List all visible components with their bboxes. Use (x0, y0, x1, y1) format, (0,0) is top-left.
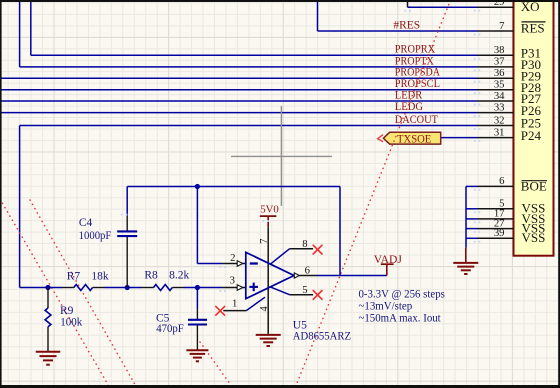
svg-text:8: 8 (302, 238, 307, 250)
node D junction (feedback/inverting branch) (195, 184, 200, 189)
wire PROPRX vertical (30, 0, 32, 55)
op-amp pin 5 stub (290, 294, 314, 296)
svg-text:6: 6 (305, 264, 311, 276)
op-amp U5 pin 3 line (223, 287, 246, 289)
wire VSS stub 4 (466, 237, 478, 239)
svg-text:6: 6 (499, 175, 505, 187)
hotspot marker pin 31 (474, 140, 476, 142)
hotspot marker pin 29 (474, 10, 476, 12)
hotspot marker pin3 end (219, 290, 221, 292)
red dashed diagonal bottom center (200, 342, 233, 388)
wire #RES horizontal (318, 30, 478, 32)
hotspot marker pin 34 (474, 104, 476, 106)
resistor R8 lead left (142, 287, 154, 289)
no-connect X pin 5 (313, 291, 322, 300)
hotspot marker pin 39 (474, 241, 476, 243)
svg-text:100k: 100k (60, 317, 82, 329)
port TXSOE (383, 132, 440, 144)
wire XO vertical stub (407, 0, 409, 7)
svg-text:DACOUT: DACOUT (395, 113, 438, 126)
pin 3 input glyph (237, 285, 243, 291)
svg-text:0-3.3V @ 256 steps: 0-3.3V @ 256 steps (359, 288, 445, 300)
IC pin 39 (VSS4) (478, 237, 514, 239)
svg-text:~13mV/step: ~13mV/step (359, 301, 413, 313)
svg-text:470pF: 470pF (156, 323, 184, 335)
IC pin 29 (XO) (478, 6, 514, 8)
svg-text:TXSOE: TXSOE (397, 131, 431, 145)
ground under C5 (186, 349, 208, 351)
IC pin 33 (P26) (478, 112, 514, 114)
wire VSS stub 1 (466, 208, 478, 210)
IC pin 35 (P28) (478, 89, 514, 91)
hotspot marker pin 17 (474, 221, 476, 223)
wire DACOUT vertical feed (19, 126, 21, 288)
IC U1 body (514, 0, 554, 256)
wire DACOUT horizontal (20, 125, 478, 127)
wire inverting branch vertical (196, 187, 198, 264)
svg-text:RES: RES (521, 21, 545, 36)
wire PROPSDA (0, 77, 478, 79)
IC pin 5 (VSS1) (478, 208, 514, 210)
capacitor C4 lead top (126, 216, 128, 231)
resistor R9 lead bottom (47, 327, 49, 352)
red dashed diagonal left 1 (0, 199, 110, 388)
capacitor C5 lead top (196, 309, 198, 320)
IC pin 31 (P24) (478, 137, 514, 139)
svg-text:37: 37 (494, 56, 505, 68)
svg-text:1000pF: 1000pF (79, 230, 112, 242)
IC pin 36 (P29) (478, 77, 514, 79)
wire node row left (20, 287, 62, 289)
node C junction (C5 top) (195, 285, 200, 290)
wire VSS stub 3 (466, 228, 478, 230)
hotspot marker pin2 end (219, 266, 221, 268)
red dashed diagonal left 2 (30, 200, 137, 388)
svg-text:33: 33 (494, 101, 505, 113)
svg-text:P24: P24 (521, 128, 542, 143)
wire LEDR (0, 100, 478, 102)
IC pin 32 (P25) (478, 125, 514, 127)
svg-text:39: 39 (494, 227, 505, 239)
hotspot marker pin 38 (474, 58, 476, 60)
hotspot marker XO wire corner (404, 10, 406, 12)
wire BOE vertical (465, 186, 467, 247)
no-connect X pin 1 (216, 306, 225, 315)
svg-text:C4: C4 (79, 217, 93, 229)
svg-text:LEDG: LEDG (395, 100, 424, 113)
pin 2 input glyph (237, 261, 243, 267)
wire XO (pin 29) (408, 6, 478, 8)
svg-text:R9: R9 (60, 305, 74, 317)
svg-text:5: 5 (302, 284, 307, 296)
op-amp pin 8 stub (290, 248, 314, 250)
svg-text:1: 1 (232, 298, 237, 310)
svg-text:31: 31 (494, 126, 505, 138)
op-amp pin 5 diagonal (270, 287, 290, 295)
IC pin 7 (RES) (478, 30, 514, 32)
svg-text:2: 2 (230, 252, 235, 264)
svg-text:35: 35 (494, 79, 505, 91)
IC pin 34 (P27) (478, 100, 514, 102)
wire C4 top (126, 187, 128, 216)
hotspot marker pin 36 (474, 81, 476, 83)
svg-text:~150mA max. Iout: ~150mA max. Iout (359, 312, 442, 324)
hotspot marker pin 35 (474, 92, 476, 94)
svg-text:#RES: #RES (393, 19, 420, 32)
op-amp pin 7 and pin 4 vertical (267, 227, 269, 334)
ground under R9 (36, 351, 61, 353)
node B junction (C4 bottom) (125, 285, 130, 290)
wire R7 to C4 node (105, 287, 142, 289)
capacitor C5 (188, 319, 207, 321)
node A junction (45, 285, 50, 290)
marker red chevron at port tip (378, 135, 383, 142)
wire LEDG (0, 112, 478, 114)
hotspot marker C4 top (121, 214, 123, 216)
capacitor C4 (117, 230, 137, 232)
op-amp output glyph (294, 273, 299, 278)
wire TXSOE to pin 31 (441, 137, 478, 139)
IC pin 6 (BOE) (478, 185, 514, 187)
capacitor C4 lead bottom (126, 237, 128, 288)
hotspot marker pin 27 (474, 231, 476, 233)
op-amp pin 1 stub (223, 310, 246, 312)
wire BOE stub (466, 185, 478, 187)
op-amp minus sign (250, 262, 258, 264)
hotspot marker 5V0 (262, 220, 264, 222)
svg-text:3: 3 (230, 275, 235, 287)
IC pin 37 (P30) (478, 66, 514, 68)
svg-text:XO: XO (521, 0, 540, 14)
resistor R7 (74, 285, 93, 291)
wire PROPTX horizontal (20, 66, 478, 68)
wire R8 to op-amp pin3 (184, 287, 223, 289)
hotspot marker pin 6 (474, 189, 476, 191)
svg-text:7: 7 (259, 239, 270, 244)
red dashed diagonal right (295, 0, 451, 388)
cursor crosshair (231, 155, 332, 157)
svg-text:32: 32 (494, 114, 505, 126)
svg-text:AD8655ARZ: AD8655ARZ (293, 330, 351, 342)
ground under op-amp pin 4 (256, 334, 281, 336)
svg-text:4: 4 (259, 306, 270, 312)
hotspot marker pin 37 (474, 69, 476, 71)
svg-text:38: 38 (494, 44, 505, 56)
wire feedback top (127, 186, 340, 188)
IC pin 27 (VSS3) (478, 228, 514, 230)
wire PROPTX vertical (19, 0, 21, 67)
IC pin 38 (P31) (478, 54, 514, 56)
IC pin 17 (VSS2) (478, 218, 514, 220)
svg-text:36: 36 (494, 67, 505, 79)
op-amp plus sign (249, 286, 258, 288)
wire inverting branch horizontal (197, 263, 222, 265)
svg-text:5V0: 5V0 (260, 203, 279, 215)
wire PROPSCL (0, 89, 478, 91)
resistor R7 lead left (62, 287, 74, 289)
hotspot marker pin 5 (474, 211, 476, 213)
hotspot marker pin 33 (474, 115, 476, 117)
op-amp pin 6 stub (299, 275, 316, 277)
resistor R8 (154, 285, 173, 291)
svg-text:VSS: VSS (522, 230, 546, 245)
wire VSS stub 2 (466, 218, 478, 220)
op-amp U5 triangle (246, 252, 294, 298)
svg-text:8.2k: 8.2k (169, 269, 189, 281)
svg-text:18k: 18k (91, 271, 109, 283)
no-connect X pin 8 (313, 245, 322, 254)
capacitor C5 lead bottom (196, 325, 198, 350)
resistor R8 lead right (172, 287, 184, 289)
op-amp U5 pin 2 line (223, 263, 246, 265)
svg-text:R8: R8 (144, 269, 158, 281)
svg-text:7: 7 (499, 20, 505, 32)
op-amp pin 1 diagonal (246, 297, 265, 310)
wire #RES vertical (317, 0, 319, 31)
svg-text:R7: R7 (67, 271, 81, 283)
resistor R9 (45, 308, 51, 327)
wire C5 top (196, 288, 198, 309)
wire feedback right vertical (339, 187, 341, 276)
ground under BOE/VSS (465, 248, 467, 263)
wire PROPRX horizontal (31, 54, 478, 56)
svg-text:34: 34 (494, 90, 505, 102)
hotspot marker pin 7 (474, 34, 476, 36)
op-amp pin 8 diagonal (270, 249, 290, 265)
hotspot marker pin 32 (474, 128, 476, 130)
wire output VADJ (317, 275, 387, 277)
border frame (0, 0, 560, 2)
resistor R7 lead right (93, 287, 105, 289)
resistor R9 lead top (47, 288, 49, 309)
